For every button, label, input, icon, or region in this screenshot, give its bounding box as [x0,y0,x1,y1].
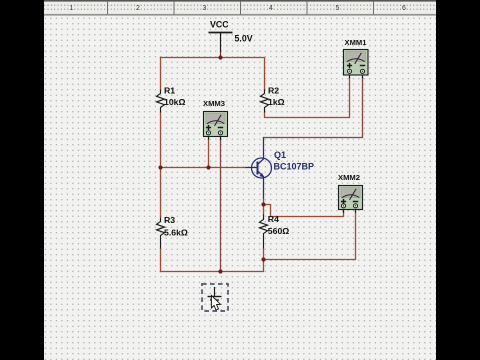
mouse cursor [211,295,220,310]
resistor R4 [260,215,268,249]
svg-text:R4: R4 [268,214,279,224]
junction base row-left rail [158,165,162,169]
junction XMM3 plus-base row [206,165,210,169]
wire emitter junction down to R4 [263,205,265,215]
multimeter XMM3 [204,112,228,140]
svg-text:6: 6 [402,5,406,12]
ground symbol (selected) [208,287,222,304]
resistor R1 [157,90,165,113]
svg-text:XMM3: XMM3 [203,99,225,108]
svg-text:1: 1 [70,5,74,12]
resistor R2 [261,90,269,113]
transistor Q1 [246,138,272,199]
junction XMM3 minus-ground row [218,269,222,273]
svg-text:4: 4 [269,5,273,12]
junction emitter node [261,202,265,206]
top ruler [44,0,436,16]
selection box around ground [202,284,228,311]
junction VCC-top rail [218,55,222,59]
wire XMM1 minus to Q1 collector [264,78,363,138]
svg-text:3: 3 [203,5,207,12]
svg-text:R2: R2 [268,86,279,96]
svg-text:Q1: Q1 [274,150,286,160]
wire XMM3 plus lead to base row [208,140,210,168]
svg-text:XMM1: XMM1 [345,38,368,47]
grid dots [44,16,436,360]
wire XMM3 minus lead to ground row [220,140,222,272]
wire R4 bottom to junction row [263,249,265,260]
svg-text:R3: R3 [164,215,175,225]
svg-text:VCC: VCC [210,19,229,29]
power VCC [209,33,233,57]
wire base row (left rail to Q1 base) [161,167,246,169]
wire R2 bottom to XMM1 plus [265,78,350,118]
svg-text:R1: R1 [164,86,175,96]
svg-text:1kΩ: 1kΩ [268,97,285,107]
wire R4 junction to XMM2 minus [264,212,356,260]
wire left rail upper (top rail to R1) [160,58,162,90]
wire emitter junction jog to XMM2 plus [264,199,344,217]
svg-text:2: 2 [136,5,140,12]
wire right rail upper (top rail to R2) [264,58,266,90]
wire VCC top rail [161,57,265,59]
svg-text:XMM2: XMM2 [338,173,360,182]
multimeter XMM1 [344,50,369,79]
svg-text:BC107BP: BC107BP [274,162,315,172]
junction dots [158,55,265,273]
resistor R3 [157,218,165,249]
junction R4 bottom node [261,257,265,261]
wire left rail lower (R3 to ground row) [160,249,162,272]
wire left rail middle (R1 to R3) [160,113,162,218]
multimeter XMM2 [339,186,363,213]
svg-text:5.0V: 5.0V [235,34,253,44]
svg-text:10kΩ: 10kΩ [164,97,185,107]
svg-text:560Ω: 560Ω [268,226,289,236]
wire ground row [161,260,264,272]
svg-text:5.6kΩ: 5.6kΩ [164,228,188,238]
svg-text:5: 5 [336,5,340,12]
